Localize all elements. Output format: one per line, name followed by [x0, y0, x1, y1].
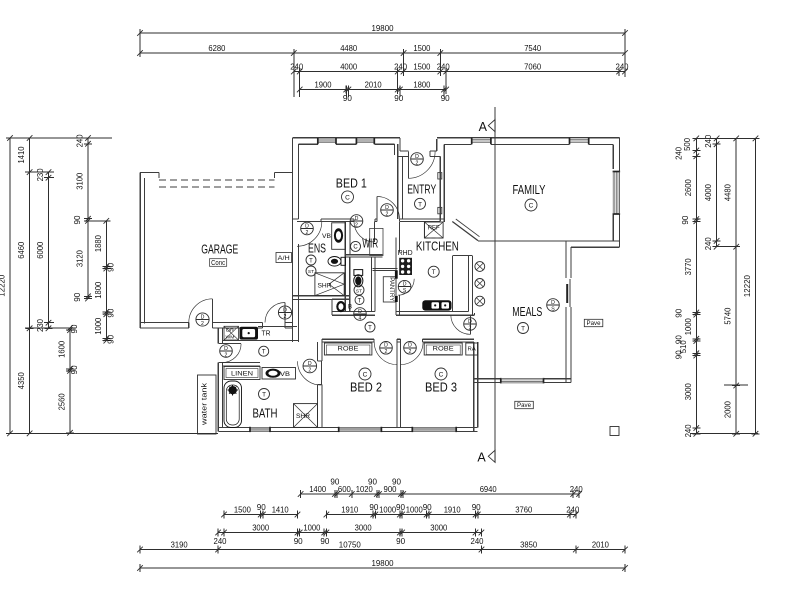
svg-text:2000: 2000 — [724, 401, 733, 418]
svg-text:240: 240 — [704, 134, 713, 147]
svg-text:1000: 1000 — [94, 317, 103, 334]
svg-text:90: 90 — [106, 262, 115, 271]
svg-text:T: T — [418, 201, 422, 208]
svg-text:90: 90 — [73, 292, 82, 301]
svg-text:90: 90 — [368, 478, 377, 487]
svg-text:1500: 1500 — [413, 44, 430, 53]
svg-text:A: A — [479, 120, 488, 134]
svg-text:3120: 3120 — [76, 250, 85, 267]
svg-text:ROBE: ROBE — [433, 346, 455, 353]
svg-text:D: D — [358, 309, 362, 315]
svg-text:2: 2 — [225, 352, 228, 358]
svg-text:D: D — [408, 343, 412, 349]
svg-text:D: D — [415, 154, 419, 160]
svg-text:C: C — [345, 195, 350, 202]
svg-text:T: T — [262, 350, 266, 356]
svg-text:2: 2 — [409, 349, 412, 355]
svg-text:PANTRY: PANTRY — [388, 277, 395, 302]
svg-text:1910: 1910 — [444, 505, 461, 514]
svg-text:90: 90 — [330, 478, 339, 487]
svg-text:2: 2 — [355, 222, 358, 228]
svg-text:90: 90 — [73, 215, 82, 224]
svg-text:4350: 4350 — [17, 372, 26, 389]
svg-text:1000: 1000 — [303, 523, 320, 532]
svg-text:S: S — [551, 306, 555, 312]
svg-text:2: 2 — [284, 314, 287, 320]
svg-text:T: T — [521, 326, 525, 333]
svg-text:BED 1: BED 1 — [336, 175, 367, 190]
svg-text:240: 240 — [76, 134, 85, 147]
svg-text:D: D — [305, 223, 309, 229]
svg-text:240: 240 — [684, 424, 693, 437]
svg-text:1500: 1500 — [413, 62, 430, 71]
svg-text:2: 2 — [308, 367, 311, 373]
svg-text:3000: 3000 — [684, 383, 693, 400]
svg-text:D: D — [224, 346, 228, 352]
svg-text:1000: 1000 — [684, 318, 693, 335]
svg-text:2010: 2010 — [365, 80, 382, 89]
svg-text:BED 3: BED 3 — [425, 380, 457, 395]
svg-text:90: 90 — [369, 503, 378, 512]
svg-text:240: 240 — [616, 62, 629, 71]
svg-text:90: 90 — [343, 94, 352, 103]
svg-text:4480: 4480 — [340, 44, 357, 53]
svg-text:4: 4 — [359, 315, 362, 321]
svg-text:WM: WM — [226, 335, 235, 341]
svg-text:10750: 10750 — [339, 540, 361, 549]
svg-text:D: D — [308, 361, 312, 367]
svg-text:230: 230 — [36, 168, 45, 181]
svg-text:240: 240 — [437, 62, 450, 71]
svg-text:2: 2 — [469, 325, 472, 331]
svg-text:90: 90 — [675, 335, 684, 344]
svg-text:1000: 1000 — [406, 505, 423, 514]
svg-text:3190: 3190 — [171, 540, 188, 549]
svg-text:90: 90 — [396, 537, 405, 546]
svg-text:90: 90 — [294, 537, 303, 546]
svg-text:2: 2 — [201, 321, 204, 327]
svg-text:2600: 2600 — [684, 179, 693, 196]
svg-text:C: C — [353, 245, 358, 251]
svg-text:6280: 6280 — [208, 44, 225, 53]
svg-text:MEALS: MEALS — [512, 304, 542, 319]
svg-text:2: 2 — [306, 230, 309, 236]
svg-text:D: D — [403, 282, 407, 288]
svg-text:Pave: Pave — [587, 320, 601, 327]
svg-text:3770: 3770 — [684, 258, 693, 275]
svg-text:4480: 4480 — [724, 184, 733, 201]
svg-text:D: D — [283, 307, 287, 313]
svg-text:T: T — [358, 298, 362, 304]
svg-text:2: 2 — [386, 211, 389, 217]
svg-text:D: D — [468, 319, 472, 325]
svg-text:19800: 19800 — [372, 24, 394, 33]
svg-text:D: D — [551, 300, 555, 306]
svg-text:SHR: SHR — [318, 283, 332, 290]
svg-text:3000: 3000 — [355, 523, 372, 532]
svg-text:SHR: SHR — [296, 413, 310, 420]
svg-text:500: 500 — [683, 137, 692, 150]
svg-text:2: 2 — [385, 349, 388, 355]
svg-text:1000: 1000 — [379, 505, 396, 514]
svg-text:19800: 19800 — [372, 559, 394, 568]
svg-text:1900: 1900 — [315, 80, 332, 89]
svg-text:D: D — [355, 216, 359, 222]
svg-text:RA: RA — [468, 347, 476, 353]
svg-text:1800: 1800 — [94, 281, 103, 298]
svg-text:D: D — [384, 343, 388, 349]
svg-text:LINEN: LINEN — [231, 371, 253, 378]
svg-text:VB: VB — [280, 371, 291, 378]
svg-text:DR: DR — [226, 328, 235, 334]
svg-text:2: 2 — [416, 160, 419, 166]
svg-text:90: 90 — [396, 503, 405, 512]
svg-text:C: C — [529, 203, 534, 210]
svg-text:240: 240 — [394, 62, 407, 71]
svg-text:C: C — [363, 372, 368, 379]
svg-text:VB: VB — [322, 233, 331, 240]
svg-text:1600: 1600 — [58, 340, 67, 357]
svg-text:3100: 3100 — [76, 172, 85, 189]
svg-text:240: 240 — [675, 146, 684, 159]
svg-text:90: 90 — [320, 537, 329, 546]
svg-text:D: D — [385, 205, 389, 211]
svg-text:90: 90 — [257, 503, 266, 512]
svg-text:3000: 3000 — [252, 523, 269, 532]
svg-text:1880: 1880 — [94, 235, 103, 252]
svg-text:RHD: RHD — [398, 250, 413, 257]
svg-text:6460: 6460 — [17, 241, 26, 258]
svg-text:1410: 1410 — [272, 505, 289, 514]
svg-text:12220: 12220 — [743, 275, 752, 297]
svg-text:90: 90 — [394, 94, 403, 103]
svg-text:1410: 1410 — [17, 146, 26, 163]
svg-text:5740: 5740 — [724, 307, 733, 324]
svg-text:A: A — [477, 450, 486, 464]
svg-text:T: T — [432, 269, 436, 276]
svg-text:A/H: A/H — [278, 255, 290, 262]
svg-text:240: 240 — [570, 485, 583, 494]
svg-text:90: 90 — [675, 308, 684, 317]
svg-text:4000: 4000 — [704, 184, 713, 201]
svg-text:7540: 7540 — [524, 44, 541, 53]
svg-text:TR: TR — [262, 331, 271, 338]
svg-text:6000: 6000 — [36, 241, 45, 258]
svg-text:Conc: Conc — [211, 260, 225, 267]
svg-text:90: 90 — [106, 334, 115, 343]
svg-text:S: S — [403, 288, 407, 294]
svg-text:BATH: BATH — [253, 407, 278, 421]
svg-text:2560: 2560 — [58, 393, 67, 410]
svg-text:90: 90 — [392, 478, 401, 487]
svg-text:90: 90 — [441, 94, 450, 103]
svg-text:T: T — [368, 325, 372, 331]
svg-text:90: 90 — [106, 308, 115, 317]
svg-text:ST: ST — [356, 288, 362, 294]
svg-text:Pave: Pave — [517, 402, 531, 409]
svg-text:2010: 2010 — [592, 540, 609, 549]
svg-text:240: 240 — [214, 537, 227, 546]
svg-text:C: C — [439, 372, 444, 379]
svg-text:90: 90 — [70, 365, 79, 374]
svg-text:B: B — [348, 304, 352, 311]
svg-text:REF: REF — [428, 225, 440, 232]
svg-text:240: 240 — [290, 62, 303, 71]
svg-text:D: D — [201, 314, 205, 320]
svg-text:T: T — [309, 258, 313, 264]
svg-text:240: 240 — [471, 537, 484, 546]
svg-text:FAMILY: FAMILY — [513, 182, 546, 197]
svg-text:1800: 1800 — [413, 80, 430, 89]
svg-text:1500: 1500 — [234, 505, 251, 514]
svg-text:T: T — [262, 392, 266, 399]
svg-text:ROBE: ROBE — [338, 346, 360, 353]
svg-text:BED 2: BED 2 — [350, 380, 382, 395]
svg-text:6940: 6940 — [480, 485, 497, 494]
svg-text:240: 240 — [704, 237, 713, 250]
svg-text:1400: 1400 — [309, 485, 326, 494]
svg-text:KITCHEN: KITCHEN — [416, 239, 459, 253]
svg-text:7060: 7060 — [524, 62, 541, 71]
svg-text:600: 600 — [338, 485, 351, 494]
svg-text:90: 90 — [675, 350, 684, 359]
svg-text:1910: 1910 — [341, 505, 358, 514]
svg-text:90: 90 — [423, 503, 432, 512]
svg-text:90: 90 — [472, 503, 481, 512]
svg-text:90: 90 — [681, 215, 690, 224]
svg-text:240: 240 — [566, 505, 579, 514]
svg-text:WIR: WIR — [362, 237, 378, 251]
svg-text:ENTRY: ENTRY — [407, 182, 436, 196]
svg-text:90: 90 — [70, 324, 79, 333]
svg-text:3000: 3000 — [430, 523, 447, 532]
svg-text:4000: 4000 — [340, 62, 357, 71]
svg-text:230: 230 — [36, 319, 45, 332]
svg-text:3850: 3850 — [520, 540, 537, 549]
svg-text:ST: ST — [308, 269, 314, 275]
svg-text:GARAGE: GARAGE — [201, 242, 238, 257]
svg-text:12220: 12220 — [0, 274, 7, 296]
svg-text:water tank: water tank — [202, 382, 209, 426]
svg-text:3760: 3760 — [515, 505, 532, 514]
svg-text:ENS: ENS — [308, 241, 326, 255]
